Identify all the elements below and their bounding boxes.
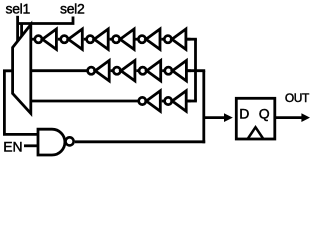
inverter row1-1 xyxy=(35,29,61,49)
inverter row1-5 xyxy=(138,29,164,49)
wire mux to row1 chain xyxy=(31,38,34,41)
wire mux output: left, down, to NAND top input xyxy=(4,71,37,135)
wire arrow into DFF D input xyxy=(204,116,225,119)
wire Q output with arrow xyxy=(275,116,302,119)
DFF clock triangle xyxy=(248,127,264,139)
inverter row1-3 xyxy=(87,29,113,49)
D flip-flop U2 xyxy=(236,98,274,139)
wire sel2: vertical, horizontal, leg into mux top xyxy=(18,17,75,38)
wire EN to NAND bottom input xyxy=(24,144,38,147)
inverter row1-4 xyxy=(113,29,139,49)
wire row2 end to vertical V2 xyxy=(186,69,205,72)
mux U1 (trapezoid) xyxy=(13,25,31,114)
wire row3 end to V1 xyxy=(186,100,197,103)
NAND gate G1 xyxy=(38,129,65,155)
svg-text:OUT: OUT xyxy=(285,91,310,105)
wire sel1 vertical into mux top xyxy=(16,16,19,43)
inverter row1-6 xyxy=(164,29,190,49)
NAND output bubble xyxy=(66,137,74,145)
svg-text:sel2: sel2 xyxy=(60,0,85,16)
inverter row2-4 xyxy=(165,60,191,80)
wire vertical V1 (row1 down to row3) xyxy=(194,39,197,101)
wire mux to row3 chain xyxy=(31,100,139,103)
inverter row2-3 xyxy=(139,60,165,80)
inverter row1-2 xyxy=(61,29,87,49)
wire mux to row2 chain xyxy=(31,69,88,72)
svg-text:EN: EN xyxy=(3,139,22,155)
wire vertical V2 (row2 down to feedback corner) xyxy=(202,71,205,144)
wire bottom feedback (NAND output to V2) xyxy=(75,140,205,143)
inverter row2-1 xyxy=(88,60,114,80)
svg-text:Q: Q xyxy=(259,106,270,122)
svg-text:D: D xyxy=(239,106,249,122)
inverter row3-2 xyxy=(165,91,191,111)
inverter row2-2 xyxy=(113,60,139,80)
svg-text:sel1: sel1 xyxy=(6,0,31,16)
wire row1 end to vertical V1 xyxy=(186,38,197,41)
inverter row3-1 xyxy=(139,91,165,111)
